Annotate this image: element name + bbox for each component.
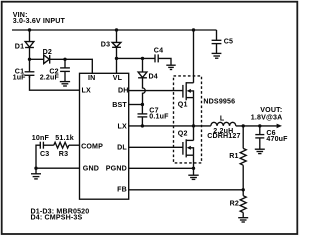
capacitor C1	[13, 59, 35, 81]
wire inductor to VOUT arrow	[236, 125, 277, 127]
junction VOUT / C6	[258, 124, 261, 127]
diode D1	[15, 30, 34, 59]
svg-text:1uF: 1uF	[13, 73, 27, 81]
net label VIN	[13, 11, 66, 25]
diode D2	[43, 48, 52, 64]
wire D2 cathode to IN pin	[50, 59, 93, 73]
wire C3 to R3	[43, 144, 53, 146]
svg-text:R1: R1	[229, 152, 238, 160]
resistor R3	[54, 134, 74, 158]
junction node D (D4 branch)	[141, 57, 144, 60]
svg-text:DL: DL	[117, 144, 127, 152]
wire C4 to ground	[158, 58, 171, 65]
svg-text:C3: C3	[40, 150, 49, 158]
diode D3	[101, 30, 121, 58]
wire GND pin	[36, 167, 80, 169]
wire node C to C4	[117, 57, 156, 59]
ground below C5	[212, 53, 222, 58]
wire Q1 drain to VIN rail	[193, 30, 195, 83]
svg-text:LX: LX	[82, 86, 91, 94]
svg-text:GND: GND	[83, 165, 99, 173]
svg-text:R3: R3	[59, 150, 68, 158]
svg-text:C4: C4	[154, 47, 163, 55]
junction FB node	[242, 188, 245, 191]
svg-text:0.1uF: 0.1uF	[149, 112, 169, 120]
wire D4 cathode to BST node (hop over DH wire)	[143, 78, 146, 105]
svg-text:L: L	[220, 115, 225, 123]
wire DL pin to Q2 gate	[129, 146, 183, 148]
node C junction (D3 cathode / VL / C4 / D4)	[115, 57, 118, 60]
note: diode part numbers	[31, 207, 90, 221]
resistor R1	[229, 126, 246, 190]
dual MOSFET package outline NDS9956	[174, 76, 236, 163]
capacitor C7	[138, 105, 170, 126]
capacitor C5	[212, 37, 233, 53]
wire FB pin to FB node	[129, 189, 244, 191]
junction GND node	[34, 167, 37, 170]
wire DH pin to Q1 gate	[129, 90, 183, 92]
wire Q1 source to LX node	[193, 98, 195, 126]
node A junction (D1 cathode / D2 anode / C1)	[28, 58, 31, 61]
svg-text:IN: IN	[88, 74, 95, 82]
svg-text:D4: D4	[149, 72, 158, 80]
capacitor C3	[32, 134, 50, 158]
svg-text:D1: D1	[15, 42, 24, 50]
svg-text:10nF: 10nF	[32, 134, 50, 142]
diode D4	[138, 58, 158, 80]
transistor Q2	[178, 130, 194, 158]
junction node B (C2 / IN)	[63, 58, 66, 61]
VOUT arrow head	[277, 124, 282, 129]
wire C3 left to GND node	[36, 145, 40, 168]
junction VIN / D1	[28, 28, 31, 31]
svg-text:LX: LX	[118, 122, 127, 130]
svg-text:D2: D2	[43, 48, 52, 56]
svg-text:C5: C5	[224, 37, 233, 45]
svg-text:1.8V@3A: 1.8V@3A	[251, 114, 283, 122]
wire C1 bottom to LX pin	[30, 75, 80, 90]
capacitor C6	[255, 126, 288, 149]
svg-text:CDRH127: CDRH127	[207, 132, 240, 140]
ground below R2	[238, 218, 248, 222]
svg-text:FB: FB	[117, 186, 127, 194]
IC U1 controller box	[80, 73, 129, 199]
wire Q2 drain to LX node	[193, 126, 195, 140]
wire LX node to inductor	[194, 125, 211, 127]
svg-text:NDS9956: NDS9956	[203, 98, 235, 106]
wire Q2 source to PGND node	[193, 155, 195, 168]
wire BST pin	[129, 104, 143, 106]
svg-text:D3: D3	[101, 41, 110, 49]
wire node A to D2	[30, 58, 44, 60]
wire VIN rail	[12, 29, 217, 31]
svg-text:3.0-3.6V INPUT: 3.0-3.6V INPUT	[13, 17, 66, 25]
junction VIN / D3	[115, 28, 118, 31]
junction VOUT / R1	[242, 124, 245, 127]
svg-text:2.2uF: 2.2uF	[40, 73, 60, 81]
wire PGND pin to Q2 source node	[129, 167, 194, 169]
junction PGND node	[192, 167, 195, 170]
wire VIN rail to C5	[216, 30, 218, 40]
transistor Q1	[178, 82, 194, 108]
wire R3 to COMP pin	[69, 144, 80, 146]
ground below C6	[255, 149, 265, 153]
ground at Q2 source / PGND	[188, 168, 198, 179]
net label VOUT	[251, 106, 283, 122]
ground below GND node	[31, 168, 41, 179]
resistor R2	[230, 190, 247, 218]
svg-text:Q2: Q2	[178, 130, 188, 138]
svg-text:DH: DH	[118, 86, 129, 94]
inductor L	[207, 115, 240, 140]
svg-text:470uF: 470uF	[266, 135, 288, 143]
svg-text:Q1: Q1	[178, 101, 188, 109]
svg-text:D4: CMPSH-3S: D4: CMPSH-3S	[31, 213, 83, 221]
wire node C to VL pin	[116, 58, 118, 73]
ground below C2	[60, 82, 70, 86]
junction VIN / Q1 drain	[192, 28, 195, 31]
svg-text:51.1k: 51.1k	[55, 134, 74, 142]
junction BST node	[141, 103, 144, 106]
junction LX node	[192, 124, 195, 127]
ground below C4	[166, 65, 175, 69]
capacitor C2	[40, 59, 70, 81]
capacitor C4	[154, 47, 163, 63]
svg-text:BST: BST	[112, 101, 127, 109]
svg-text:PGND: PGND	[106, 165, 127, 173]
svg-text:R2: R2	[230, 200, 239, 208]
wire LX pin to LX node	[129, 125, 194, 127]
svg-text:VL: VL	[113, 74, 123, 82]
junction C7 bottom / LX wire	[141, 124, 144, 127]
svg-text:COMP: COMP	[81, 143, 103, 151]
